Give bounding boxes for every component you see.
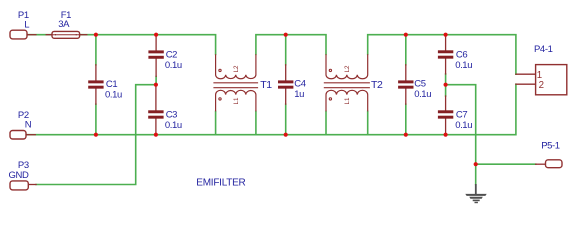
svg-text:0.1u: 0.1u xyxy=(414,89,431,100)
svg-text:P5-1: P5-1 xyxy=(541,140,560,151)
svg-text:1u: 1u xyxy=(294,89,304,100)
svg-text:C3: C3 xyxy=(166,109,177,120)
svg-text:T2: T2 xyxy=(371,79,383,91)
svg-text:0.1u: 0.1u xyxy=(105,90,122,101)
svg-text:C4: C4 xyxy=(294,79,305,90)
svg-text:P4-1: P4-1 xyxy=(534,44,553,55)
svg-text:C7: C7 xyxy=(456,110,467,121)
svg-text:T1: T1 xyxy=(260,79,272,91)
svg-text:C5: C5 xyxy=(414,79,425,90)
svg-text:C2: C2 xyxy=(166,49,177,60)
svg-text:3A: 3A xyxy=(58,19,70,30)
svg-text:N: N xyxy=(25,119,32,130)
svg-text:C1: C1 xyxy=(106,79,117,90)
svg-text:L1: L1 xyxy=(344,97,351,104)
svg-text:0.1u: 0.1u xyxy=(165,60,182,71)
svg-text:L2: L2 xyxy=(344,65,351,72)
svg-text:0.1u: 0.1u xyxy=(455,120,472,131)
svg-text:EMIFILTER: EMIFILTER xyxy=(196,178,245,189)
svg-text:2: 2 xyxy=(539,80,544,91)
svg-text:0.1u: 0.1u xyxy=(165,120,182,131)
svg-text:GND: GND xyxy=(9,170,29,181)
svg-text:0.1u: 0.1u xyxy=(455,60,472,71)
svg-text:C6: C6 xyxy=(456,49,467,60)
svg-text:L2: L2 xyxy=(233,65,240,72)
svg-text:L: L xyxy=(24,19,29,30)
svg-text:L1: L1 xyxy=(233,97,240,104)
